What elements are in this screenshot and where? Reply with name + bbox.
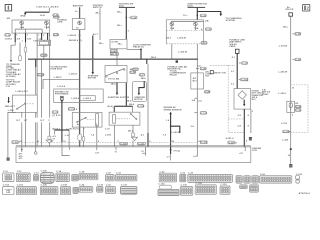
svg-text:Y-B: Y-B	[33, 40, 37, 42]
svg-text:2B-4: 2B-4	[111, 83, 117, 86]
connector ref mid-left	[38, 73, 46, 76]
svg-text:L-30: L-30	[65, 135, 70, 137]
svg-text:N-T: N-T	[40, 120, 44, 122]
svg-text:L-303-4: L-303-4	[71, 97, 80, 100]
svg-text:L-303-B: L-303-B	[171, 132, 180, 134]
engine control header box (mid-left)	[54, 89, 103, 103]
svg-text:C-111: C-111	[138, 144, 145, 146]
ECU big box	[16, 146, 251, 163]
svg-text:10A: 10A	[170, 27, 175, 30]
oval ref C-7	[139, 74, 145, 77]
svg-text:LINK: LINK	[57, 22, 63, 24]
wire between ignition boxes	[116, 49, 118, 66]
svg-text:(7) B-8: (7) B-8	[5, 39, 13, 41]
connector pad113 (table)	[240, 185, 248, 189]
connector C-135 (table)	[180, 185, 193, 196]
svg-text:RELAY B+: RELAY B+	[133, 46, 145, 49]
oval ref on dark wire	[239, 62, 248, 65]
svg-text:(B-4): (B-4)	[107, 105, 112, 108]
fuse F2 inside J/B	[44, 21, 49, 29]
relay box A (left, with contact)	[12, 95, 37, 112]
svg-text:2-R: 2-R	[17, 38, 21, 40]
svg-text:C-26: C-26	[205, 92, 211, 94]
svg-text:C-38: C-38	[130, 72, 136, 74]
svg-text:C-38: C-38	[229, 142, 235, 144]
wire from ignition switch down to arrow	[116, 83, 118, 96]
connector C-11 (table)	[16, 171, 30, 182]
junction square on B+ line	[290, 148, 292, 150]
connector pad114 (table)	[250, 185, 259, 192]
engine harness up arrow	[169, 112, 180, 147]
svg-text:C-22: C-22	[201, 15, 207, 17]
svg-text:1a?: 1a?	[193, 156, 198, 158]
connector C-33 (table)	[116, 173, 137, 181]
ECU pin stub 3 bracket	[62, 147, 70, 156]
connector C-22 (table)	[159, 171, 176, 182]
junction block J/B box 2 (top-middle-right)	[166, 20, 209, 44]
svg-text:STARTING SYSTEM: STARTING SYSTEM	[108, 96, 129, 99]
A/C relay box on IG2 wire	[191, 73, 204, 89]
svg-text:2B-4: 2B-4	[129, 103, 135, 106]
svg-text:J/B: J/B	[205, 21, 209, 23]
wire pin 3 long vertical	[36, 42, 38, 147]
connector C-132 (table)	[158, 183, 179, 195]
svg-text:C-232: C-232	[41, 55, 48, 57]
connector C-138 (table)	[195, 183, 216, 194]
wire: heavy feed from column to arrow (top-left)	[24, 8, 49, 15]
IGNITION SWITCH (IG1) label + bar	[119, 4, 135, 8]
inner box with labels L-303	[71, 96, 95, 101]
inline connector on wire pin J	[24, 42, 27, 147]
svg-text:C-38: C-38	[13, 142, 19, 144]
connector C-36 (table)	[260, 174, 292, 183]
IGNITION SWITCH (IG2) label + bar	[187, 4, 207, 8]
fusible link box on battery cable	[72, 19, 85, 30]
horizontal link line y79.3	[43, 79, 80, 89]
ACC feed wire	[93, 8, 100, 59]
ref box right of link	[137, 105, 145, 108]
wire from J/B2 to bus corner	[172, 44, 178, 63]
junction bar above ECU (dark T)	[53, 129, 71, 147]
wire to starter relay junction	[127, 49, 142, 59]
svg-text:2B-+: 2B-+	[95, 13, 101, 15]
connector C-105 (table)	[40, 185, 58, 195]
connector C-162 (table)	[296, 174, 303, 183]
svg-text:C-22: C-22	[202, 43, 208, 45]
connector ref C-32 (left of pins)	[5, 34, 11, 37]
connector C-10 (table)	[3, 171, 15, 182]
ground wire from box A to connector	[8, 112, 16, 157]
sheet number box 2 (top-right)	[303, 5, 310, 11]
connector ref C-33 (top)	[53, 14, 59, 17]
svg-text:RLY: RLY	[205, 76, 210, 78]
svg-text:C-32: C-32	[5, 35, 11, 37]
svg-text:C-35: C-35	[295, 59, 301, 61]
svg-text:RELAY: RELAY	[170, 74, 178, 77]
wire N-T below box A	[21, 112, 23, 146]
connector C-102 (table)	[3, 185, 15, 195]
ref C-22 right	[201, 42, 207, 45]
svg-text:ST IG1 AM: ST IG1 AM	[108, 77, 119, 80]
svg-text:(7) 8-10: (7) 8-10	[52, 115, 61, 117]
svg-text:V-T: V-T	[24, 120, 28, 122]
svg-text:N-T: N-T	[16, 120, 20, 122]
label C-232	[41, 54, 49, 57]
small component inside header box	[61, 96, 64, 102]
svg-text:MOTOR: MOTOR	[88, 78, 97, 80]
dark wire from component down	[61, 100, 63, 147]
svg-text:B-7 1: B-7 1	[93, 34, 99, 36]
connector pad12 (table)	[236, 176, 242, 183]
wires below diode pack	[244, 109, 251, 147]
connector C-108 (table)	[60, 185, 70, 195]
svg-text:C-30: C-30	[296, 110, 302, 112]
svg-text:C-31: C-31	[53, 112, 59, 114]
labels under relay box B	[52, 127, 85, 130]
svg-text:RED ACT: RED ACT	[5, 105, 16, 108]
B+ refs with ticks (upper)	[293, 33, 302, 36]
connector C-133 (table)	[97, 185, 104, 193]
svg-text:L-250: L-250	[8, 110, 15, 112]
svg-text:BUS25 4 [1]: BUS25 4 [1]	[69, 39, 82, 42]
dark wire x237	[236, 53, 238, 88]
B+ connector square	[289, 13, 293, 16]
pin number ticks along row	[19, 134, 248, 143]
ref above bottom	[283, 130, 291, 133]
svg-text:L-250-W: L-250-W	[278, 71, 288, 73]
ref C-30 right of J/B2	[201, 28, 212, 31]
svg-text:12?: 12?	[95, 152, 100, 154]
sheet number box 11 (top-left)	[5, 5, 11, 11]
svg-text:BATTERY: BATTERY	[73, 5, 84, 8]
svg-text:RLY: RLY	[252, 99, 257, 101]
connector C-33 (table)	[188, 173, 233, 183]
svg-text:C-115: C-115	[201, 142, 208, 144]
IG2 feed wire (long vertical)	[196, 8, 198, 147]
svg-text:C-110: C-110	[69, 109, 76, 111]
junction on IG1 with ref	[126, 16, 138, 19]
svg-text:FUSE: FUSE	[262, 94, 269, 96]
IG1 lower dark segment	[125, 83, 127, 107]
svg-text:L-250-4 R-0: L-250-4 R-0	[15, 90, 28, 93]
ECU pin stub 4	[95, 147, 100, 155]
svg-text:2-B: 2-B	[192, 100, 196, 102]
svg-text:C-115: C-115	[201, 113, 208, 115]
svg-text:19 +: 19 +	[183, 15, 188, 17]
svg-text:V?V-[]: V?V-[]	[173, 150, 180, 152]
svg-text:2B-L: 2B-L	[283, 26, 289, 28]
svg-text:Y6-B: Y6-B	[40, 15, 46, 17]
wires below starter relay	[115, 125, 133, 147]
ref box on dark wire	[239, 78, 248, 81]
svg-text:2B-+: 2B-+	[118, 44, 124, 46]
fuse F4 inside J/B2	[194, 22, 199, 30]
connector C-137 (table)	[121, 185, 137, 194]
heavy link to IG1 bottom	[114, 106, 132, 112]
junction IG2 + label	[183, 14, 206, 17]
svg-text:+5?: +5?	[239, 153, 244, 155]
connector pad13 (table)	[244, 176, 250, 183]
diode pack box	[234, 89, 251, 110]
stacked refs right of ignition switch	[130, 68, 139, 74]
starter motor rounded box	[132, 81, 146, 101]
connector C-14 (table)	[56, 170, 69, 182]
svg-text:C-07: C-07	[105, 129, 111, 131]
ignition switch upper box	[110, 40, 127, 49]
svg-text:W6A: W6A	[20, 15, 25, 18]
text right of A/C relay	[205, 70, 212, 77]
left small text block (right sect)	[262, 90, 270, 96]
dashed ECU boundary (left edge)	[228, 65, 244, 132]
wire color labels row (left)	[16, 120, 50, 122]
connector square on dark wire	[235, 49, 239, 53]
svg-text:FUSE BOX: FUSE BOX	[50, 69, 62, 71]
svg-text:7.5A: 7.5A	[44, 26, 49, 29]
svg-text:(S.FUSE): (S.FUSE)	[6, 76, 16, 78]
svg-text:C-134: C-134	[283, 130, 290, 133]
wire from J/B pin 1 with arrow to trailer	[10, 42, 15, 62]
connector C-139 (table)	[220, 184, 230, 194]
connector C-32 (table)	[180, 173, 186, 182]
J/B pin stubs and wires below box	[15, 33, 50, 42]
svg-text:L-203-B: L-203-B	[279, 46, 288, 48]
ref box right of dashed row	[201, 141, 208, 144]
svg-text:MOTOR: MOTOR	[134, 99, 143, 101]
svg-text:C-305 76-3 L-305-B 4: C-305 76-3 L-305-B 4	[36, 5, 59, 8]
svg-text:L-250-4: L-250-4	[69, 72, 78, 75]
svg-text:C-36: C-36	[296, 107, 302, 109]
svg-text:2B-4: 2B-4	[151, 56, 157, 59]
ECU junction stub 7	[167, 147, 180, 161]
svg-text:2: 2	[306, 6, 309, 11]
svg-text:C-37: C-37	[242, 63, 248, 65]
junction block J/B box (top-left)	[12, 20, 50, 33]
svg-text:2B-4: 2B-4	[141, 77, 147, 80]
svg-text:2B-+: 2B-+	[117, 12, 123, 14]
junction ref on IG2 (mid)	[194, 112, 207, 115]
svg-text:L-250: L-250	[105, 134, 112, 136]
svg-text:L-310-4: L-310-4	[57, 85, 66, 88]
svg-text:2B-1: 2B-1	[128, 130, 134, 132]
svg-text:2B-+: 2B-+	[99, 43, 105, 45]
svg-text:L-305-W: L-305-W	[177, 38, 187, 40]
TO DEDICATED text	[50, 66, 67, 71]
label A-07X STARTER RELAY	[133, 44, 156, 60]
svg-text:1B-7: 1B-7	[166, 38, 172, 40]
svg-text:2B-+: 2B-+	[117, 25, 123, 27]
svg-text:L-250-F: L-250-F	[54, 77, 63, 79]
svg-text:C-114: C-114	[241, 78, 248, 81]
fuse box on B+ line	[287, 101, 295, 112]
ground connector square	[7, 158, 10, 161]
battery ON text left of dashes	[210, 71, 226, 75]
svg-text:L-250-L: L-250-L	[278, 93, 287, 95]
bottom B+ connector square	[289, 164, 292, 167]
wire right-edge column long vertical	[49, 42, 51, 147]
B+ long wire	[290, 16, 292, 164]
ECU pin stub 8	[193, 147, 198, 158]
svg-text:A?W?02-4: A?W?02-4	[299, 192, 311, 195]
wire from relay B right leg	[96, 124, 98, 147]
tick label on IG2	[192, 98, 198, 102]
svg-text:4-301-4: 4-301-4	[226, 137, 235, 140]
dashed connector crossing row	[18, 142, 197, 144]
connector C-305 (table)	[40, 171, 54, 184]
svg-text:ECU: ECU	[252, 150, 257, 152]
right dashed box	[282, 85, 308, 133]
svg-text:M: M	[235, 142, 237, 144]
label C-32 FUSIBLE LINK (right of J/B)	[54, 16, 68, 24]
ECU pin stub 6 (bracket right)	[141, 147, 146, 156]
inline connector on wire (lower)	[19, 43, 22, 62]
heavy branch down from bus	[35, 59, 37, 147]
ECU pin stub 2 with circle	[34, 147, 37, 154]
svg-text:C-120: C-120	[138, 106, 145, 108]
ignition switch contact box	[105, 66, 127, 83]
svg-text:L-305-W: L-305-W	[178, 52, 188, 54]
stacked refs under upper ignition box	[110, 50, 118, 56]
svg-text:C-109: C-109	[120, 144, 127, 146]
connector ref oval right of J/B	[53, 33, 59, 36]
svg-text:SWITCH: SWITCH	[93, 7, 102, 9]
svg-text:2B-4: 2B-4	[126, 99, 132, 102]
ref C-38 M	[228, 141, 237, 144]
connector C-35 (table)	[105, 185, 115, 194]
ECU pin stub 9	[239, 147, 245, 155]
svg-text:C-213: C-213	[38, 75, 45, 77]
connector C-32 (table)	[105, 173, 114, 181]
svg-text:SPEED SENSOR: SPEED SENSOR	[164, 109, 182, 111]
svg-text:J/B: J/B	[6, 18, 10, 20]
svg-text:C-B: C-B	[6, 86, 10, 88]
oval connector on battery cable (bottom)	[78, 134, 82, 147]
left text block: TO TAIL LIGHT RELAY etc	[6, 67, 21, 88]
svg-text:C-30: C-30	[206, 29, 212, 31]
svg-text:7.5A: 7.5A	[194, 27, 199, 30]
svg-text:L-250: L-250	[282, 140, 289, 142]
oval refs above ECU box	[120, 142, 128, 145]
svg-text:FOR RHEED: FOR RHEED	[55, 94, 69, 96]
svg-text:L-303-2: L-303-2	[83, 98, 92, 100]
text right of ECU box	[252, 148, 261, 152]
text block left of A/C relay	[170, 69, 187, 76]
diode pack text (right)	[252, 91, 264, 101]
wire from relay box down	[41, 45, 43, 146]
svg-text:RLY: RLY	[193, 80, 198, 82]
starter motor arrow (dark)	[92, 60, 95, 75]
svg-text:10A: 10A	[20, 26, 25, 29]
svg-text:C-26: C-26	[201, 68, 207, 70]
connector pad5 (table)	[72, 175, 78, 181]
svg-text:SPLICE: SPLICE	[285, 9, 294, 11]
diode glyph on wire 49	[46, 136, 56, 143]
connector pad104 (table)	[73, 187, 78, 193]
starter relay box (dashed)	[109, 112, 140, 125]
connector C-103 (table)	[16, 185, 36, 195]
svg-text:C-38: C-38	[295, 34, 301, 36]
refs left of relay box B	[52, 111, 61, 117]
junction + ref on IG2 wire	[196, 67, 207, 70]
svg-text:C-22: C-22	[131, 17, 137, 19]
fuse F3 inside J/B2	[170, 22, 175, 30]
heavy starter bus (long horizontal)	[28, 58, 198, 60]
svg-text:C-30: C-30	[54, 35, 60, 37]
heavy branch to charging system with arrow	[197, 12, 222, 17]
ECU pin stub 5	[114, 147, 117, 154]
svg-text:C-40: C-40	[111, 50, 117, 53]
connector pad14 (table)	[252, 176, 258, 183]
connector C-34 (table)	[79, 184, 93, 193]
connector C-13 (table)	[34, 173, 40, 181]
svg-text:FEED: FEED	[229, 46, 235, 48]
dark wire x148 to box	[147, 133, 149, 147]
IG1 feed wire (long dark vertical)	[125, 8, 127, 39]
refs right of fuse box	[295, 103, 301, 112]
ECU pin stub 1 with junction	[19, 147, 24, 160]
relay box B (dashed, mid-left)	[72, 112, 102, 127]
B+ ref (mid)	[293, 58, 302, 61]
connector ref 4 C-110	[68, 108, 78, 111]
connector C-28 (table)	[79, 171, 98, 179]
connector label row ref C-38	[12, 141, 18, 144]
battery cable (long vertical)	[78, 7, 80, 147]
long vertical right of starter box	[147, 59, 148, 147]
svg-text:BATT? ON: BATT? ON	[214, 71, 226, 74]
ref under A/C relay	[204, 91, 210, 94]
dashed horizontal at y65.3	[210, 64, 235, 66]
arrow left of relay box A	[7, 97, 9, 103]
dashed inner horizontal y119	[228, 118, 244, 120]
dark connector square right	[249, 137, 252, 140]
svg-text:L-190: L-190	[281, 123, 288, 125]
fusible link text block (right)	[229, 40, 245, 48]
svg-text:G-B: G-B	[27, 38, 32, 40]
svg-text:SYSTEM: SYSTEM	[226, 20, 235, 22]
fuse F1 inside J/B	[20, 21, 25, 29]
svg-text:L-305-B: L-305-B	[68, 35, 77, 37]
relay box C-232 (small, top)	[37, 40, 50, 45]
relay B contact output wire	[82, 127, 85, 147]
diode glyph on wire 132.5	[131, 133, 137, 147]
